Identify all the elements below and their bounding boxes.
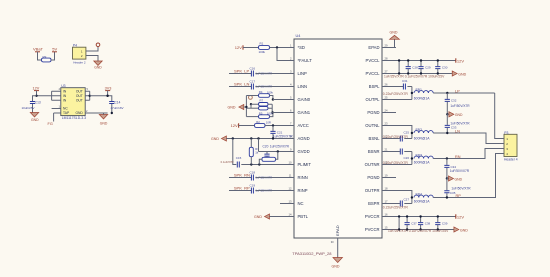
net label RP	[456, 194, 462, 198]
svg-text:BSPR: BSPR	[368, 201, 379, 206]
wire	[251, 104, 259, 108]
junction	[272, 124, 274, 126]
svg-text:OUTNL: OUTNL	[365, 123, 380, 128]
capacitor C33	[445, 114, 471, 133]
svg-text:27: 27	[385, 69, 388, 73]
svg-text:BSPL: BSPL	[369, 84, 380, 89]
svg-text:24: 24	[385, 108, 388, 112]
junction	[411, 157, 413, 159]
wire	[90, 95, 108, 97]
junction	[398, 215, 439, 230]
svg-text:12V: 12V	[235, 45, 242, 50]
junction	[35, 95, 37, 97]
svg-text:C39: C39	[442, 221, 448, 225]
wire RP	[433, 154, 504, 198]
ground	[94, 61, 103, 69]
wire	[270, 47, 295, 49]
wire	[272, 112, 294, 114]
svg-text:GND: GND	[458, 72, 466, 76]
resistor R8	[259, 107, 269, 110]
svg-text:R9: R9	[43, 55, 47, 59]
svg-text:RINN: RINN	[298, 175, 308, 180]
svg-text:BSNL: BSNL	[369, 136, 381, 141]
resistor R4	[246, 90, 273, 97]
ferrite bead FB2	[414, 128, 433, 141]
capacitor C21	[270, 126, 293, 139]
svg-text:26: 26	[385, 82, 388, 86]
IC U4 right pin stubs	[382, 43, 396, 229]
svg-text:C28: C28	[412, 65, 418, 69]
svg-text:AGND: AGND	[298, 136, 310, 141]
svg-text:PVCCR: PVCCR	[365, 227, 380, 232]
svg-text:C19: C19	[250, 183, 256, 187]
wire	[246, 107, 258, 109]
net label SPK_LN	[234, 82, 249, 87]
svg-text:29: 29	[385, 43, 388, 47]
capacitor C17	[250, 79, 273, 89]
junction	[446, 92, 448, 94]
wire	[245, 96, 247, 117]
svg-text:FB3: FB3	[416, 154, 422, 158]
svg-text:C16: C16	[250, 66, 256, 70]
ground	[447, 176, 463, 181]
wire AGND rail	[226, 138, 294, 140]
capacitor C29	[418, 61, 431, 74]
capacitor C35	[444, 179, 471, 198]
ferrite bead FB3	[414, 154, 433, 165]
svg-text:Header 2: Header 2	[73, 61, 86, 65]
power port 12V	[231, 123, 239, 128]
svg-text:600R@1A: 600R@1A	[414, 97, 430, 101]
wire	[495, 93, 504, 139]
svg-text:GND: GND	[254, 215, 262, 219]
svg-text:R1: R1	[260, 42, 264, 46]
junction	[272, 98, 274, 100]
ground	[390, 30, 400, 39]
wire	[51, 52, 55, 60]
svg-text:0.1uF/X7R: 0.1uF/X7R	[221, 160, 234, 164]
junction	[446, 157, 448, 159]
wire	[396, 126, 412, 139]
junction	[245, 106, 247, 108]
svg-text:OUT: OUT	[76, 94, 83, 98]
svg-text:C31: C31	[402, 79, 408, 83]
svg-text:NC: NC	[63, 107, 68, 111]
svg-text:C27: C27	[404, 198, 410, 202]
svg-text:13: 13	[289, 199, 292, 203]
svg-text:C37: C37	[411, 221, 417, 225]
svg-text:12V: 12V	[33, 87, 40, 91]
svg-text:C17: C17	[250, 79, 256, 83]
svg-text:GND: GND	[228, 106, 236, 110]
svg-text:1uF/25V/X7R 0.1uF/25V/X7R 10: 1uF/25V/X7R 0.1uF/25V/X7R 100uF/25V	[384, 74, 445, 78]
svg-text:C13: C13	[35, 100, 41, 104]
IC U4 TPA3110D2	[294, 34, 382, 238]
svg-text:OUTPR: OUTPR	[365, 188, 380, 193]
net label FG	[48, 122, 53, 126]
svg-text:C25: C25	[404, 131, 410, 135]
wire RN	[433, 149, 504, 159]
svg-text:SPK_LN: SPK_LN	[234, 82, 249, 87]
svg-text:C32: C32	[451, 99, 457, 103]
wire	[37, 91, 52, 96]
wire	[394, 39, 396, 47]
svg-text:RN: RN	[455, 155, 461, 159]
svg-text:U4: U4	[296, 34, 301, 38]
svg-text:25: 25	[385, 95, 388, 99]
svg-text:GVDD: GVDD	[298, 149, 310, 154]
ground	[99, 113, 108, 125]
junction	[411, 132, 413, 134]
power port 12V	[456, 58, 465, 63]
capacitor C32	[445, 93, 471, 114]
svg-text:10: 10	[289, 160, 292, 164]
junction	[250, 103, 252, 105]
svg-text:FB1: FB1	[416, 88, 422, 92]
resistor R9	[42, 55, 52, 62]
junction	[411, 196, 413, 198]
wire	[233, 139, 237, 165]
svg-text:0.22uF/25V/X7R: 0.22uF/25V/X7R	[383, 206, 409, 210]
ground	[447, 112, 463, 117]
svg-text:U3: U3	[61, 84, 65, 88]
ground	[211, 136, 226, 141]
wire	[396, 191, 412, 204]
wire	[51, 91, 53, 100]
resistor R5	[246, 111, 273, 118]
wire	[38, 52, 42, 60]
wire	[396, 152, 412, 165]
capacitor C18	[250, 170, 273, 180]
capacitor C14	[108, 96, 124, 113]
svg-text:VBaT: VBaT	[33, 47, 44, 52]
svg-text:14: 14	[289, 212, 292, 216]
svg-text:P3: P3	[504, 131, 508, 135]
svg-text:0.22uF/25V/X7R: 0.22uF/25V/X7R	[383, 135, 409, 139]
ground	[452, 71, 466, 76]
ground	[454, 227, 468, 232]
power port VBaT	[33, 47, 44, 52]
capacitor C16	[250, 66, 273, 76]
svg-text:BSNR: BSNR	[368, 149, 380, 154]
svg-text:OUT: OUT	[76, 99, 83, 103]
svg-text:1uF/50V/X7R: 1uF/50V/X7R	[451, 186, 471, 190]
svg-text:OUTNR: OUTNR	[365, 162, 380, 167]
svg-text:C38: C38	[425, 221, 431, 225]
svg-text:C29: C29	[425, 65, 431, 69]
wire PVCCR rail	[396, 216, 456, 218]
svg-text:1uF/50V/X7R: 1uF/50V/X7R	[450, 104, 470, 108]
junction	[411, 92, 413, 94]
wire	[255, 190, 294, 192]
wire	[229, 190, 251, 192]
wire	[239, 125, 255, 127]
wire	[270, 113, 273, 117]
capacitor C26	[383, 149, 412, 166]
capacitor C28	[406, 61, 419, 74]
svg-text:C18: C18	[250, 170, 256, 174]
svg-text:GAIN0: GAIN0	[298, 97, 311, 102]
capacitor C30	[435, 61, 448, 74]
wire	[53, 113, 55, 122]
svg-text:12V: 12V	[457, 214, 464, 219]
junction	[446, 132, 448, 134]
svg-text:23: 23	[385, 121, 388, 125]
svg-text:R4: R4	[259, 90, 263, 94]
capacitor C39	[435, 217, 448, 230]
ground	[228, 104, 247, 109]
svg-text:C26: C26	[404, 156, 410, 160]
junction	[276, 46, 278, 48]
svg-text:16: 16	[385, 212, 388, 216]
net label SPK_RN	[234, 173, 250, 178]
IC U3	[52, 84, 108, 120]
svg-text:PVCCL: PVCCL	[366, 71, 381, 76]
svg-text:PGND: PGND	[367, 110, 379, 115]
svg-text:RINP: RINP	[298, 188, 308, 193]
wire	[255, 86, 294, 88]
capacitor C15	[221, 156, 242, 167]
wire LP	[433, 92, 495, 94]
resistor R1	[259, 42, 270, 55]
svg-text:100k: 100k	[267, 90, 274, 94]
svg-text:12V: 12V	[231, 123, 238, 128]
net label LP	[455, 89, 460, 93]
wire	[86, 47, 98, 51]
svg-text:NC: NC	[298, 201, 304, 206]
junction	[446, 113, 448, 115]
svg-text:GND: GND	[211, 137, 219, 141]
wire	[89, 91, 91, 100]
svg-text:600R@1A: 600R@1A	[414, 200, 430, 204]
wire	[277, 48, 294, 61]
svg-text:100k: 100k	[259, 50, 266, 54]
svg-text:GND: GND	[31, 118, 39, 122]
ferrite bead FB1	[414, 88, 433, 101]
junction	[106, 95, 113, 115]
svg-text:10uF/25V: 10uF/25V	[22, 106, 35, 110]
ground	[254, 214, 270, 219]
svg-text:GND: GND	[455, 113, 463, 117]
wire	[229, 73, 251, 75]
svg-text:SPK_RP: SPK_RP	[234, 186, 250, 191]
svg-text:GND: GND	[100, 121, 108, 125]
junction	[398, 59, 439, 74]
svg-text:FB2: FB2	[416, 128, 422, 132]
power port 12V	[235, 45, 243, 50]
capacitor C19	[250, 183, 273, 193]
svg-text:TPA3110D2_PWP_28: TPA3110D2_PWP_28	[292, 251, 332, 256]
svg-text:R2: R2	[256, 120, 260, 124]
wire	[398, 61, 400, 74]
svg-text:R7: R7	[260, 99, 264, 103]
junction	[89, 95, 91, 97]
wire	[265, 125, 294, 127]
net label RN	[455, 155, 461, 159]
svg-text:*FAULT: *FAULT	[298, 58, 313, 63]
svg-text:SPK_RN: SPK_RN	[234, 173, 250, 178]
header P4	[73, 43, 86, 64]
svg-text:P4: P4	[73, 43, 77, 47]
capacitor C31	[383, 79, 412, 96]
junction	[106, 95, 108, 97]
svg-text:GAIN1: GAIN1	[298, 110, 311, 115]
svg-text:600R@1A: 600R@1A	[414, 160, 430, 164]
power port 3V3	[105, 87, 112, 91]
svg-text:R5: R5	[259, 111, 263, 115]
svg-text:17: 17	[385, 199, 388, 203]
svg-text:3V3: 3V3	[105, 87, 112, 91]
wire	[270, 216, 295, 218]
header P3	[497, 131, 518, 162]
capacitor values	[384, 74, 445, 78]
power port 12V	[96, 43, 100, 47]
svg-text:LINP: LINP	[298, 71, 308, 76]
svg-text:PBTL: PBTL	[298, 214, 309, 219]
wire PVCCR return rail	[396, 229, 454, 231]
wire	[268, 104, 272, 112]
svg-text:C15: C15	[236, 156, 242, 160]
svg-text:28: 28	[385, 56, 388, 60]
svg-text:PLIMIT: PLIMIT	[298, 162, 312, 167]
ground	[30, 113, 39, 122]
IC U4 left pin stubs	[280, 43, 294, 216]
junction	[250, 163, 260, 165]
svg-text:600R@1A: 600R@1A	[414, 137, 430, 141]
svg-text:C14: C14	[115, 100, 121, 104]
wire	[396, 87, 412, 100]
wire	[229, 177, 251, 179]
svg-text:RP: RP	[456, 194, 462, 198]
capacitor values	[388, 229, 449, 233]
svg-text:*SD: *SD	[298, 45, 305, 50]
svg-text:EPAD: EPAD	[335, 225, 340, 236]
svg-text:12: 12	[289, 186, 292, 190]
svg-text:LN: LN	[455, 129, 460, 133]
svg-text:C20: C20	[263, 144, 269, 148]
svg-text:LINN: LINN	[298, 84, 308, 89]
svg-text:0.22uF/25V/X7R: 0.22uF/25V/X7R	[383, 92, 409, 96]
wire	[258, 139, 260, 152]
wire PVCCL return rail	[396, 73, 452, 75]
svg-text:GND: GND	[332, 265, 340, 269]
svg-text:18: 18	[385, 186, 388, 190]
wire PLIMIT	[241, 164, 294, 166]
svg-text:GND: GND	[390, 30, 398, 34]
ferrite bead FB4	[414, 193, 433, 204]
junction	[446, 196, 448, 198]
wire	[255, 73, 294, 75]
resistor R6	[259, 152, 278, 165]
svg-text:OUT: OUT	[76, 89, 83, 93]
wire	[86, 56, 98, 62]
wire	[243, 47, 259, 49]
junction	[446, 177, 448, 179]
wire GVDD	[259, 151, 295, 153]
capacitor C13	[22, 96, 41, 113]
capacitor C38	[418, 217, 431, 230]
wire	[273, 99, 294, 101]
svg-text:1uF/25V/X7R: 1uF/25V/X7R	[270, 144, 290, 148]
capacitor C34	[444, 159, 469, 179]
svg-text:PGND: PGND	[367, 175, 379, 180]
svg-text:GND: GND	[460, 228, 468, 232]
wire	[229, 86, 251, 88]
svg-text:SPK_LP: SPK_LP	[234, 69, 249, 74]
svg-text:LP: LP	[455, 89, 460, 93]
svg-text:GND: GND	[455, 177, 463, 181]
junction	[271, 111, 273, 113]
svg-text:1uF/25V/X7R 0.1uF/25V/X7R 10: 1uF/25V/X7R 0.1uF/25V/X7R 100uF/25V	[388, 229, 449, 233]
resistor R3	[249, 139, 259, 165]
wire PVCCL rail	[396, 60, 456, 62]
net label SPK_LP	[234, 69, 249, 74]
net label SPK_RP	[234, 186, 250, 191]
svg-text:TAP: TAP	[63, 111, 70, 115]
ground	[332, 258, 343, 269]
resistor R2	[255, 120, 271, 128]
svg-text:PVCCL: PVCCL	[366, 58, 381, 63]
svg-text:5V: 5V	[52, 47, 57, 52]
wire	[337, 238, 339, 258]
power port 12V	[33, 87, 40, 91]
junction	[232, 137, 275, 139]
power port 5V	[52, 47, 58, 52]
net label LN	[455, 129, 460, 133]
no-ERC marker	[249, 96, 253, 100]
svg-text:21: 21	[385, 147, 388, 151]
svg-text:EPAD: EPAD	[368, 45, 379, 50]
svg-text:OUTPL: OUTPL	[366, 97, 381, 102]
capacitor C20	[263, 144, 290, 157]
wire LN	[433, 133, 504, 144]
capacitor C27	[383, 198, 412, 210]
svg-text:FG: FG	[48, 122, 53, 126]
svg-text:FB4: FB4	[416, 193, 422, 197]
svg-text:C30: C30	[442, 65, 448, 69]
IC U4 part number	[292, 251, 332, 256]
power port 12V	[456, 214, 465, 219]
svg-text:Header 4: Header 4	[504, 158, 518, 162]
svg-text:GND: GND	[75, 111, 83, 115]
wire	[255, 177, 294, 179]
svg-text:10R: 10R	[266, 120, 271, 124]
capacitor C25	[383, 131, 412, 142]
svg-text:47uF/16V: 47uF/16V	[111, 106, 124, 110]
wire	[107, 91, 109, 96]
svg-text:19: 19	[385, 173, 388, 177]
resistor R7	[259, 99, 269, 106]
junction	[277, 150, 279, 152]
svg-text:1uF/50V/X7R: 1uF/50V/X7R	[450, 169, 470, 173]
svg-text:LM1117SLD-3.3: LM1117SLD-3.3	[62, 116, 86, 120]
svg-text:12V: 12V	[457, 58, 464, 63]
capacitor C37	[405, 217, 418, 230]
wire	[270, 96, 273, 100]
svg-text:AVCC: AVCC	[298, 123, 309, 128]
svg-text:GND: GND	[94, 65, 102, 69]
svg-text:PVCCR: PVCCR	[365, 214, 380, 219]
wire	[398, 217, 400, 230]
